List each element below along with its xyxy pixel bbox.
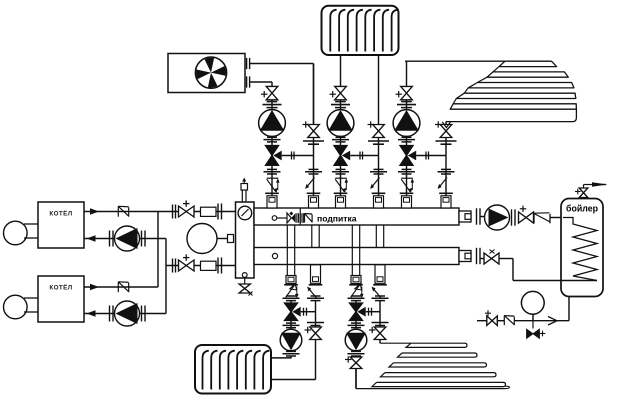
radiator (bottom) [195, 345, 271, 394]
flange [109, 231, 111, 247]
radiator tube [330, 10, 336, 52]
wire to tank [550, 217, 563, 219]
fan blade [196, 70, 211, 80]
riser pipe x291 (through return beam) [286, 225, 288, 276]
makeup drop pipe [299, 208, 301, 225]
check valve B2 supply [117, 282, 119, 292]
bottom group1 left pipe column (pump) [286, 276, 296, 284]
makeup flanges [296, 213, 298, 223]
wire to separator bottom-left port [166, 265, 236, 267]
shut-off valve below pump (group2) [355, 356, 357, 389]
pump P3 (to бойлер) [485, 205, 510, 230]
makeup port circle [272, 216, 277, 221]
radiator tube [339, 10, 345, 52]
cold water valve [487, 316, 498, 326]
pressure gauge on separator [238, 206, 252, 220]
flow arrow left B1 return [87, 235, 96, 242]
DHW tank бойлер [561, 199, 603, 297]
wire cold water line [477, 320, 487, 322]
svg-text:бойлер: бойлер [566, 204, 599, 214]
riser pipe x356 (through return beam) [351, 225, 353, 276]
wire boiler B1 supply [84, 211, 158, 213]
flange [511, 209, 513, 225]
check valve [533, 213, 535, 223]
bottom group2 left pipe column (pump) [351, 276, 361, 284]
fan blade [211, 66, 226, 76]
supply manifold beam [254, 208, 459, 225]
wire group1 3-way to right pipe [282, 155, 314, 157]
makeup wire [277, 217, 287, 219]
flow arrow on cold line [548, 317, 557, 326]
radiator tube [203, 351, 209, 390]
wire bottom group1 3-way to right pipe [301, 311, 316, 313]
return beam inlet stub [459, 251, 471, 262]
tank heating coil [563, 218, 597, 281]
makeup check valve [304, 214, 306, 223]
wire boiler B2 return [84, 313, 115, 315]
group3 right pipe column [445, 122, 447, 208]
return beam drain port [272, 253, 277, 258]
shut-off valve return [484, 253, 499, 264]
shut-off valve separator return [172, 259, 174, 273]
flow arrow right B2 supply [90, 284, 99, 291]
wire return header [165, 239, 167, 314]
return manifold beam [254, 248, 459, 265]
floor heating coil (bottom right) [380, 343, 467, 347]
port stub + flange [201, 207, 217, 216]
flange [141, 306, 143, 322]
wire to separator top-left port [158, 211, 236, 213]
shut-off valve [519, 212, 534, 223]
group2 right pipe column [378, 55, 380, 208]
fan symbol [195, 57, 226, 88]
flange [109, 306, 111, 322]
radiator tube [348, 10, 354, 52]
pump P1 boiler B1 [115, 226, 140, 251]
flow arrow left B2 return [87, 310, 96, 317]
cold water check valve [503, 316, 505, 326]
svg-text:КОТЁЛ: КОТЁЛ [49, 284, 72, 292]
flange [141, 231, 143, 247]
separator drain port [242, 273, 247, 278]
radiator tube [374, 10, 380, 52]
radiator tube [365, 10, 371, 52]
fan blade [208, 73, 218, 88]
wire bottom radiator return [271, 379, 316, 381]
relief arrow [592, 182, 608, 187]
svg-text:КОТЁЛ: КОТЁЛ [49, 210, 72, 218]
floor heating coil (top right) [405, 61, 557, 66]
fan coil unit [168, 54, 245, 93]
radiator tube [357, 10, 363, 52]
radiator tube [228, 351, 234, 390]
air vent on separator [241, 190, 243, 202]
wire fan coil to group1 left pipe [250, 81, 272, 83]
flow arrow right B1 supply [90, 208, 99, 215]
supply beam outlet stub [459, 211, 471, 222]
svg-text:подпитка: подпитка [317, 214, 357, 224]
fan coil outlet flanges [246, 58, 248, 69]
boiler B2 (котёл) [38, 276, 84, 322]
shut-off valve separator supply [172, 205, 174, 219]
check valve B1 supply [117, 206, 119, 216]
group1 left pipe column (pump) [271, 86, 273, 208]
radiator tube [392, 10, 398, 52]
makeup valve [287, 213, 291, 223]
port stub + flange [201, 261, 217, 270]
wire fan coil to group1 right pipe [250, 63, 314, 65]
wire supply header [157, 212, 159, 288]
group3 left pipe column (pump) [406, 86, 408, 208]
radiator tube [220, 351, 226, 390]
wire boiler B2 supply [84, 286, 158, 288]
drain/safety valve (black) [532, 321, 534, 329]
riser pipe x315.5 [311, 225, 313, 248]
radiator tube [254, 351, 260, 390]
radiator tube [263, 351, 269, 390]
radiator tube [237, 351, 243, 390]
bottom group2 right pipe column [375, 265, 385, 284]
group1 right pipe column [313, 64, 315, 209]
pump P2 boiler B2 [115, 301, 140, 326]
expansion vessel [217, 238, 228, 240]
fan blade [205, 58, 215, 73]
wire supply to pump [480, 216, 485, 218]
wire group3 3-way to right pipe [416, 155, 446, 157]
radiator tube [246, 351, 252, 390]
wire pump to bottom radiator [290, 356, 292, 358]
wire group2 right to coil [379, 340, 381, 344]
wire group2 3-way to right pipe [350, 155, 378, 157]
wire boiler B1 return [84, 238, 115, 240]
bottom group1 right pipe column [311, 265, 321, 284]
boiler B1 flue loop [24, 223, 38, 225]
expansion vessel (DHW) [532, 314, 534, 321]
safety valve on tank [583, 189, 585, 199]
radiator tube [383, 10, 389, 52]
wire bottom group2 3-way to right pipe [366, 311, 380, 313]
group2 left pipe column (pump) [340, 86, 342, 208]
radiator tube [211, 351, 217, 390]
separator drain valve [244, 277, 246, 284]
wire group3 supply up [406, 61, 408, 86]
boiler B1 (котёл) [38, 202, 84, 248]
wire radiator to group2 left pipe [340, 55, 342, 86]
radiator (top) [322, 6, 399, 55]
makeup flanges [301, 213, 303, 223]
boiler B2 flue loop [24, 297, 38, 299]
flow arrow into group3 return [442, 122, 450, 128]
riser pipe x380 [375, 225, 377, 248]
wire return from tank [480, 258, 484, 260]
hydraulic separator [236, 202, 255, 278]
fan coil inlet flanges [246, 76, 248, 87]
